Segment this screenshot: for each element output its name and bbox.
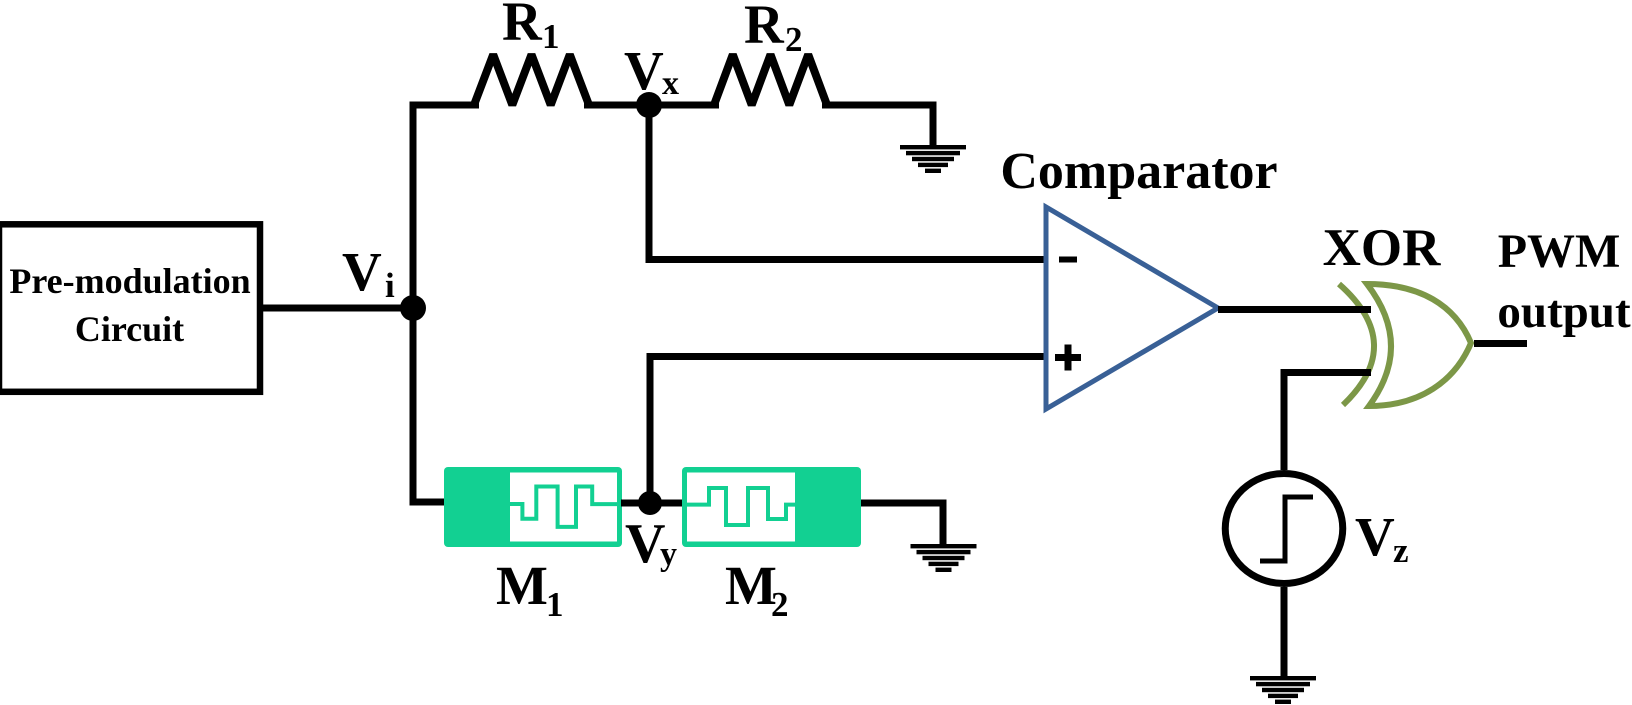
- ground (M2): [911, 544, 977, 572]
- wire Vx to R2: [649, 102, 719, 109]
- svg-text:Comparator: Comparator: [1000, 143, 1277, 200]
- label M2: [725, 555, 789, 624]
- wire M2 to ground: [861, 503, 943, 546]
- memristor M1: [444, 467, 622, 547]
- svg-text:y: y: [660, 536, 677, 573]
- svg-text:V: V: [624, 40, 664, 101]
- svg-text:XOR: XOR: [1323, 219, 1442, 277]
- label R1: [502, 0, 560, 56]
- resistor R1: [474, 55, 589, 106]
- svg-text:2: 2: [785, 20, 803, 59]
- wire node Vy to M2: [650, 500, 684, 507]
- label Vy: [625, 513, 677, 575]
- wire Vx to comparator minus input: [649, 105, 1046, 260]
- wire comparator output to XOR input: [1218, 306, 1371, 313]
- wire Vi up to top rail: [413, 105, 479, 308]
- label Vi: [342, 241, 395, 305]
- node Vy: [638, 491, 662, 515]
- svg-text:i: i: [385, 266, 395, 305]
- label PWM output: [1497, 225, 1631, 338]
- wire Vi down to M1: [413, 308, 444, 502]
- label R2: [744, 0, 803, 59]
- ground (R2): [900, 145, 966, 173]
- svg-text:R: R: [744, 0, 785, 55]
- wire R2 to ground: [822, 105, 933, 147]
- svg-text:1: 1: [542, 17, 560, 56]
- svg-text:R: R: [502, 0, 543, 52]
- svg-text:PWM: PWM: [1498, 225, 1621, 278]
- svg-text:Circuit: Circuit: [75, 309, 184, 349]
- op-amp comparator U1: [1046, 207, 1218, 409]
- svg-text:2: 2: [771, 585, 789, 624]
- wire M1 to node Vy: [621, 500, 650, 507]
- svg-text:z: z: [1393, 531, 1409, 570]
- svg-text:M: M: [725, 555, 777, 616]
- wire Vy up to comparator plus input: [650, 357, 1046, 504]
- svg-text:V: V: [1355, 506, 1395, 567]
- svg-text:1: 1: [546, 585, 564, 624]
- svg-text:V: V: [342, 241, 382, 302]
- wire R1 to node Vx: [584, 102, 649, 109]
- label Vx: [624, 40, 679, 102]
- wire Vz to XOR lower input: [1284, 373, 1371, 471]
- svg-text:M: M: [496, 555, 548, 616]
- source Vz: [1225, 474, 1343, 584]
- resistor R2: [714, 55, 827, 106]
- node Vx: [636, 92, 662, 118]
- label Vz: [1355, 506, 1409, 570]
- memristor M2: [682, 467, 861, 547]
- svg-text:x: x: [662, 65, 679, 102]
- XOR gate: [1339, 284, 1471, 406]
- wire Vz to ground: [1281, 587, 1288, 677]
- svg-text:output: output: [1497, 286, 1631, 338]
- svg-text:Pre-modulation: Pre-modulation: [9, 261, 250, 301]
- node Vi: [400, 295, 426, 321]
- wire XOR output stub: [1474, 340, 1527, 347]
- wire box to node Vi: [259, 305, 416, 312]
- label M1: [496, 555, 564, 624]
- pre-modulation circuit block: [0, 224, 260, 391]
- ground (Vz): [1250, 676, 1316, 704]
